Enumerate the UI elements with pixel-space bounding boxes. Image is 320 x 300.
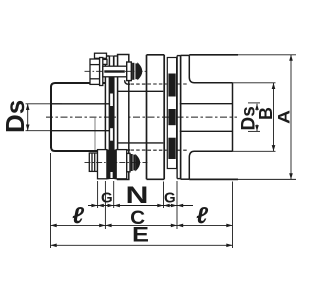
svg-text:A: A bbox=[275, 110, 294, 124]
svg-text:G: G bbox=[164, 190, 176, 207]
svg-text:G: G bbox=[101, 190, 113, 207]
svg-text:ℓ: ℓ bbox=[196, 202, 208, 228]
svg-text:B: B bbox=[256, 107, 276, 120]
svg-text:Ds: Ds bbox=[0, 100, 30, 133]
svg-text:E: E bbox=[132, 224, 149, 247]
svg-text:N: N bbox=[126, 182, 149, 209]
svg-text:ℓ: ℓ bbox=[72, 202, 84, 228]
